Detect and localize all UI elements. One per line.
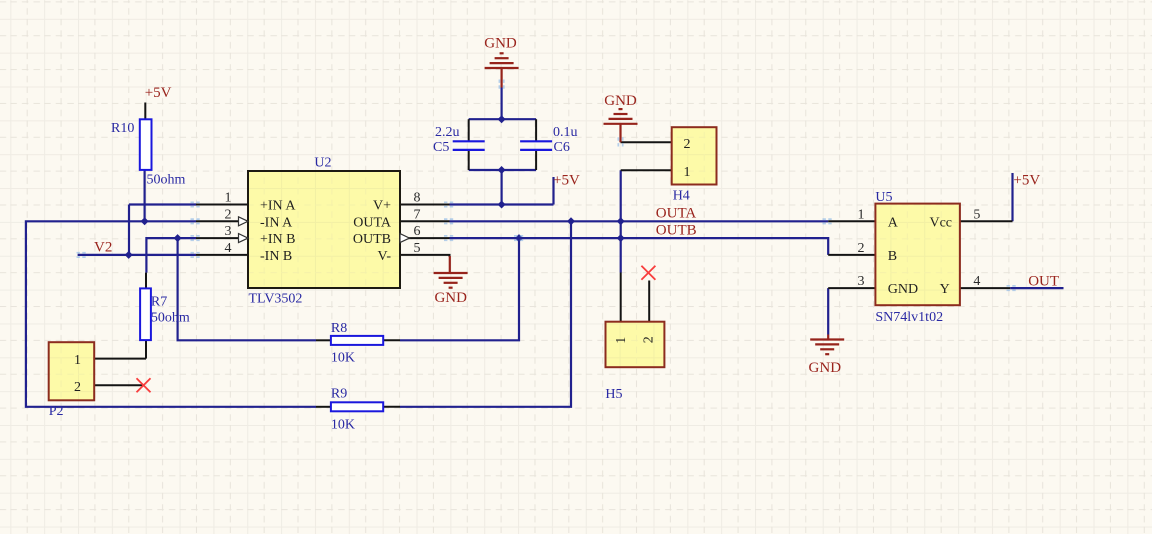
svg-text:+IN A: +IN A: [260, 199, 296, 214]
wire V+ rail pin8 to +5V: [450, 203, 554, 205]
U5 pin 5 lead: [960, 220, 1013, 222]
node V+ rail junction: [498, 201, 506, 209]
op-amp U2 body: [248, 171, 400, 288]
wire U2 pin2 wrap-around to R9 left: [26, 221, 316, 406]
U5 pin 4 lead: [960, 287, 1010, 289]
pin 3 input triangle: [239, 234, 249, 243]
svg-text:1: 1: [684, 165, 691, 180]
wire U2 pin3 to R7 top: [146, 238, 196, 273]
svg-text:H4: H4: [673, 189, 690, 204]
H5 pin 1 lead: [620, 273, 622, 322]
svg-text:2: 2: [225, 207, 232, 222]
svg-text:8: 8: [414, 191, 421, 206]
svg-text:OUT: OUT: [1028, 274, 1059, 290]
svg-text:2: 2: [684, 137, 691, 152]
svg-text:3: 3: [858, 274, 865, 289]
ground GND at U2 V-: [434, 256, 468, 288]
U2 pin 8 lead: [400, 204, 450, 206]
svg-text:+5V: +5V: [145, 85, 172, 101]
node pin1/V2 junction: [125, 251, 133, 259]
svg-text:7: 7: [414, 207, 421, 222]
node OUTA/R9 junction: [567, 217, 575, 225]
svg-text:R7: R7: [151, 295, 167, 310]
svg-text:GND: GND: [484, 36, 517, 52]
svg-text:+5V: +5V: [553, 173, 580, 189]
resistor R7 body: [140, 288, 151, 340]
C6 top lead: [535, 119, 537, 141]
svg-text:H5: H5: [605, 387, 622, 402]
U5 pin 3 lead: [828, 287, 875, 289]
svg-text:-IN A: -IN A: [260, 215, 293, 230]
C5 bottom lead: [468, 150, 470, 170]
R8 left lead: [316, 339, 331, 341]
node OUTB/R8 junction: [515, 234, 523, 242]
wire OUTA: [450, 220, 829, 222]
svg-text:OUTB: OUTB: [656, 222, 697, 238]
svg-text:GND: GND: [604, 93, 637, 109]
C5 top lead: [468, 119, 470, 141]
P2 pin 2 lead: [94, 384, 143, 386]
svg-text:2: 2: [74, 380, 81, 395]
wire pin3 branch down to R8 left: [178, 238, 316, 340]
svg-text:1: 1: [74, 353, 81, 368]
wire U5 pin3 to GND: [827, 288, 829, 334]
ground GND at U5 pin3: [810, 335, 844, 355]
ground GND at H4 pin2: [604, 109, 638, 142]
node cap bottom rail junction: [498, 166, 506, 174]
wire capacitor top rail: [469, 118, 536, 120]
svg-text:V+: V+: [373, 199, 391, 214]
svg-text:V-: V-: [378, 249, 392, 264]
resistor R9 body: [331, 402, 383, 411]
svg-text:R9: R9: [331, 387, 347, 402]
node cap top rail junction: [498, 115, 506, 123]
P2 pin 1 lead: [94, 358, 146, 360]
R9 left lead: [316, 406, 331, 408]
wire V2 node to U2 pin4 row: [78, 254, 196, 256]
svg-text:5: 5: [414, 241, 421, 256]
wire R10 bottom to pin2 row: [144, 170, 146, 221]
svg-text:Y: Y: [940, 282, 950, 297]
svg-text:OUTA: OUTA: [353, 215, 392, 230]
wire OUTB: [450, 238, 829, 255]
wire vertical pin1 to V2 node: [128, 205, 130, 255]
R9 right lead: [383, 406, 400, 408]
pin 2 input triangle: [239, 217, 249, 226]
svg-text:5: 5: [973, 207, 980, 222]
svg-text:GND: GND: [809, 360, 842, 376]
capacitor C6 plates: [520, 141, 552, 150]
svg-text:0.1u: 0.1u: [553, 125, 578, 140]
R7 top lead: [145, 273, 147, 289]
U2 pin 4 lead: [196, 254, 248, 256]
resistor R10 body: [140, 119, 152, 170]
U2 pin 1 lead: [196, 204, 248, 206]
ground GND above caps: [485, 53, 519, 87]
connector P2 body: [49, 342, 94, 400]
wire capacitor bottom rail: [469, 169, 536, 171]
no-ERC X at P2 pin2: [137, 378, 151, 392]
resistor R8 body: [331, 336, 383, 345]
node OUTB/H5 junction: [617, 234, 625, 242]
connector H5 body: [606, 322, 665, 368]
wire U5 pin5 +5V stem: [1011, 173, 1013, 221]
node pin3/R8 junction: [174, 234, 182, 242]
svg-text:OUTB: OUTB: [353, 232, 391, 247]
svg-text:4: 4: [973, 274, 980, 289]
svg-text:U5: U5: [875, 190, 892, 205]
wire GND stem to cap top rail: [501, 88, 503, 120]
connector H4 body: [672, 127, 717, 184]
U2 pin 7 lead: [400, 220, 450, 222]
U2 pin 6 lead: [400, 237, 450, 239]
wire H4 pin1 down through OUTA OUTB to H5 pin1: [620, 170, 622, 272]
U5 pin 2 lead: [828, 254, 875, 256]
svg-text:GND: GND: [434, 290, 467, 306]
wire cap bottom rail to V+ rail: [501, 170, 503, 205]
svg-text:OUTA: OUTA: [656, 206, 697, 222]
svg-text:GND: GND: [888, 282, 918, 297]
svg-text:1: 1: [858, 207, 865, 222]
capacitor C5 plates: [453, 141, 485, 150]
U2 pin 5 lead to GND: [400, 255, 450, 257]
svg-text:+5V: +5V: [1013, 172, 1040, 188]
svg-text:1: 1: [225, 191, 232, 206]
svg-text:+IN B: +IN B: [260, 232, 296, 247]
svg-text:U2: U2: [314, 156, 331, 171]
svg-text:2: 2: [858, 241, 865, 256]
svg-text:C5: C5: [433, 140, 449, 155]
H4 pin 1 lead: [621, 169, 672, 171]
svg-text:2: 2: [641, 336, 656, 343]
svg-text:SN74lv1t02: SN74lv1t02: [875, 310, 943, 325]
svg-text:TLV3502: TLV3502: [249, 292, 303, 307]
svg-text:R10: R10: [111, 121, 134, 136]
svg-text:C6: C6: [554, 140, 570, 155]
svg-text:6: 6: [414, 224, 421, 239]
svg-text:V2: V2: [94, 240, 112, 256]
svg-text:10K: 10K: [331, 418, 355, 433]
svg-text:2.2u: 2.2u: [435, 125, 460, 140]
H5 pin 2 lead: [648, 281, 650, 322]
U5 pin 1 lead: [828, 220, 875, 222]
compile marks (light blue) at wire/pin boundaries: [77, 80, 1018, 291]
svg-text:50ohm: 50ohm: [151, 311, 190, 326]
svg-text:10K: 10K: [331, 351, 355, 366]
node OUTA/H4 junction: [617, 217, 625, 225]
pin 6 output triangle: [400, 234, 410, 243]
R10 top lead from +5V: [144, 103, 146, 120]
svg-text:3: 3: [225, 224, 232, 239]
svg-text:P2: P2: [49, 404, 64, 419]
wire +5V stem: [552, 177, 554, 205]
svg-text:A: A: [888, 215, 899, 230]
C6 bottom lead: [535, 150, 537, 170]
svg-text:B: B: [888, 249, 897, 264]
svg-text:1: 1: [614, 337, 629, 344]
svg-text:R8: R8: [331, 321, 347, 336]
svg-text:-IN B: -IN B: [260, 249, 292, 264]
node R10/pin2 junction: [141, 217, 149, 225]
svg-text:50ohm: 50ohm: [147, 173, 186, 188]
U2 pin 2 lead: [196, 220, 248, 222]
R7 bottom lead: [145, 340, 147, 359]
wire U2 pin1 to vertical: [129, 203, 196, 205]
gate U5 body: [875, 204, 960, 306]
wire R9 right to OUTA: [400, 221, 571, 406]
R8 right lead: [383, 339, 400, 341]
U2 pin 3 lead: [196, 237, 248, 239]
no-ERC X at H5 pin2: [641, 266, 655, 280]
wire R8 right to OUTB: [400, 238, 519, 340]
svg-text:Vcc: Vcc: [929, 215, 952, 230]
H4 pin 2 lead: [621, 141, 672, 143]
svg-text:4: 4: [225, 241, 232, 256]
wire U5 pin4 Y output: [1010, 287, 1063, 289]
